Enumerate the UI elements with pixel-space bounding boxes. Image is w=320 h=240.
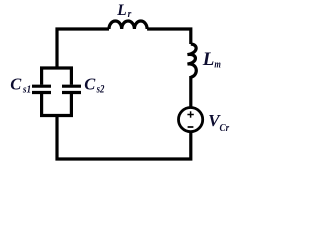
capacitor block bottom rail (40, 114, 73, 117)
right branch upper stub (70, 68, 73, 85)
left branch upper stub (40, 68, 43, 85)
left branch lower stub (40, 94, 43, 116)
inductor L_r (109, 21, 147, 29)
wire top-right + right vertical to coil (147, 29, 191, 44)
minus sign (188, 126, 194, 128)
plus sign (187, 111, 193, 117)
inductor L_m (187, 44, 196, 77)
capacitor block top rail (40, 66, 73, 69)
wire top-left + left vertical to capacitor block top (57, 29, 109, 70)
wire source bottom + bottom wire + left vertical up to block bottom (57, 114, 191, 159)
capacitor C_s1 plates (32, 86, 51, 92)
capacitor C_s2 plates (62, 86, 81, 92)
wire coil to source (189, 76, 192, 107)
right branch lower stub (70, 94, 73, 116)
voltage source V_Cr circle (179, 108, 203, 132)
